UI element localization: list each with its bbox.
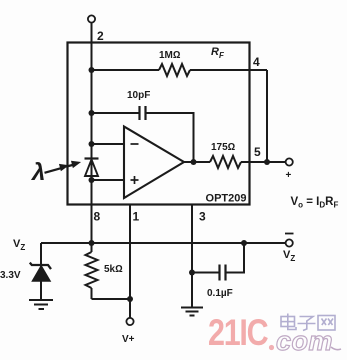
node: bypass cap tap on pin3 lead	[189, 270, 195, 276]
node: inverting input tap	[89, 141, 95, 147]
svg-text:1MΩ: 1MΩ	[159, 50, 181, 61]
ground (zener)	[29, 300, 53, 309]
node: cap to rail junction	[241, 240, 247, 246]
ground (pin 3)	[181, 308, 203, 316]
pin 1 lead	[129, 205, 131, 300]
svg-text:21IC: 21IC	[208, 312, 268, 353]
OPT209 package box	[68, 43, 250, 205]
wire: inverting input	[92, 143, 125, 145]
svg-text:OPT209: OPT209	[206, 193, 247, 205]
svg-text:1: 1	[133, 210, 140, 224]
op-amp U1 triangle	[124, 127, 184, 199]
op-amp plus sign	[131, 179, 139, 181]
node: op-amp output junction	[191, 159, 197, 165]
wire: resistor to output terminal	[241, 161, 286, 163]
svg-text:2: 2	[97, 29, 104, 43]
node: V+ junction	[127, 296, 133, 302]
V+ terminal	[126, 318, 133, 325]
resistor 175 Ohm zigzag	[210, 156, 241, 168]
wire: cap to rail	[226, 243, 245, 273]
resistor RF 1MOhm zigzag	[159, 64, 190, 76]
input terminal pin 2	[88, 15, 95, 22]
svg-text:+: +	[286, 170, 292, 181]
Vz rail wire	[41, 242, 286, 244]
svg-text:λ: λ	[30, 159, 45, 186]
op-amp minus sign	[131, 143, 139, 145]
node: pin8 to rail	[89, 240, 95, 246]
wire: output to 175 ohm resistor	[184, 161, 210, 163]
svg-text:175Ω: 175Ω	[211, 142, 236, 153]
svg-text:RF: RF	[211, 46, 225, 60]
capacitor 0.1uF plates	[218, 265, 220, 281]
node: 10pF tap on left wire	[89, 110, 95, 116]
svg-text:8: 8	[94, 210, 101, 224]
wire: 10pF branch left segment	[92, 112, 140, 114]
wire: 10pF branch right segment and drop to output node	[146, 113, 194, 162]
svg-text:4: 4	[253, 55, 260, 69]
pin 3 lead	[191, 205, 193, 308]
wire: pin-4 vertical drop to output node	[266, 70, 268, 162]
svg-text:0.1µF: 0.1µF	[207, 288, 233, 299]
output terminal	[286, 158, 293, 165]
photodiode D1	[85, 157, 99, 159]
light arrows into photodiode	[45, 161, 81, 173]
wire: feedback to resistor RF	[92, 69, 160, 71]
svg-text:3.3V: 3.3V	[0, 270, 21, 281]
Vz output terminal with overbar	[286, 239, 293, 246]
node: feedback tap on left wire	[89, 67, 95, 73]
svg-text:com: com	[276, 326, 333, 356]
wire: stub to V+ terminal	[129, 299, 131, 318]
svg-text:10pF: 10pF	[127, 90, 150, 101]
svg-text:5kΩ: 5kΩ	[104, 264, 123, 275]
svg-text:3: 3	[199, 210, 206, 224]
svg-text:V+: V+	[122, 334, 135, 345]
node: non-inverting input tap	[89, 177, 95, 183]
wire: 5k bottom to pin1 lead	[92, 298, 131, 300]
wire: to 0.1uF cap	[192, 272, 220, 274]
svg-text:VZ: VZ	[283, 249, 295, 263]
wire: non-inverting input	[92, 179, 125, 181]
svg-text:VZ: VZ	[13, 238, 25, 252]
zener diode D2 3.3V	[30, 263, 51, 270]
wire: zener branch down	[40, 243, 42, 299]
resistor 5kOhm zigzag	[91, 243, 93, 252]
capacitor C1 10pF plates	[138, 106, 140, 120]
node: pin4/output junction	[264, 159, 270, 165]
wire: main left vertical from input terminal down to Vz rail	[91, 23, 93, 243]
watermark 21IC logo	[208, 312, 341, 356]
wire: RF to pin 4 drop	[190, 69, 267, 71]
svg-text:5: 5	[254, 145, 261, 159]
svg-text:Vo = IDRF: Vo = IDRF	[291, 196, 339, 210]
